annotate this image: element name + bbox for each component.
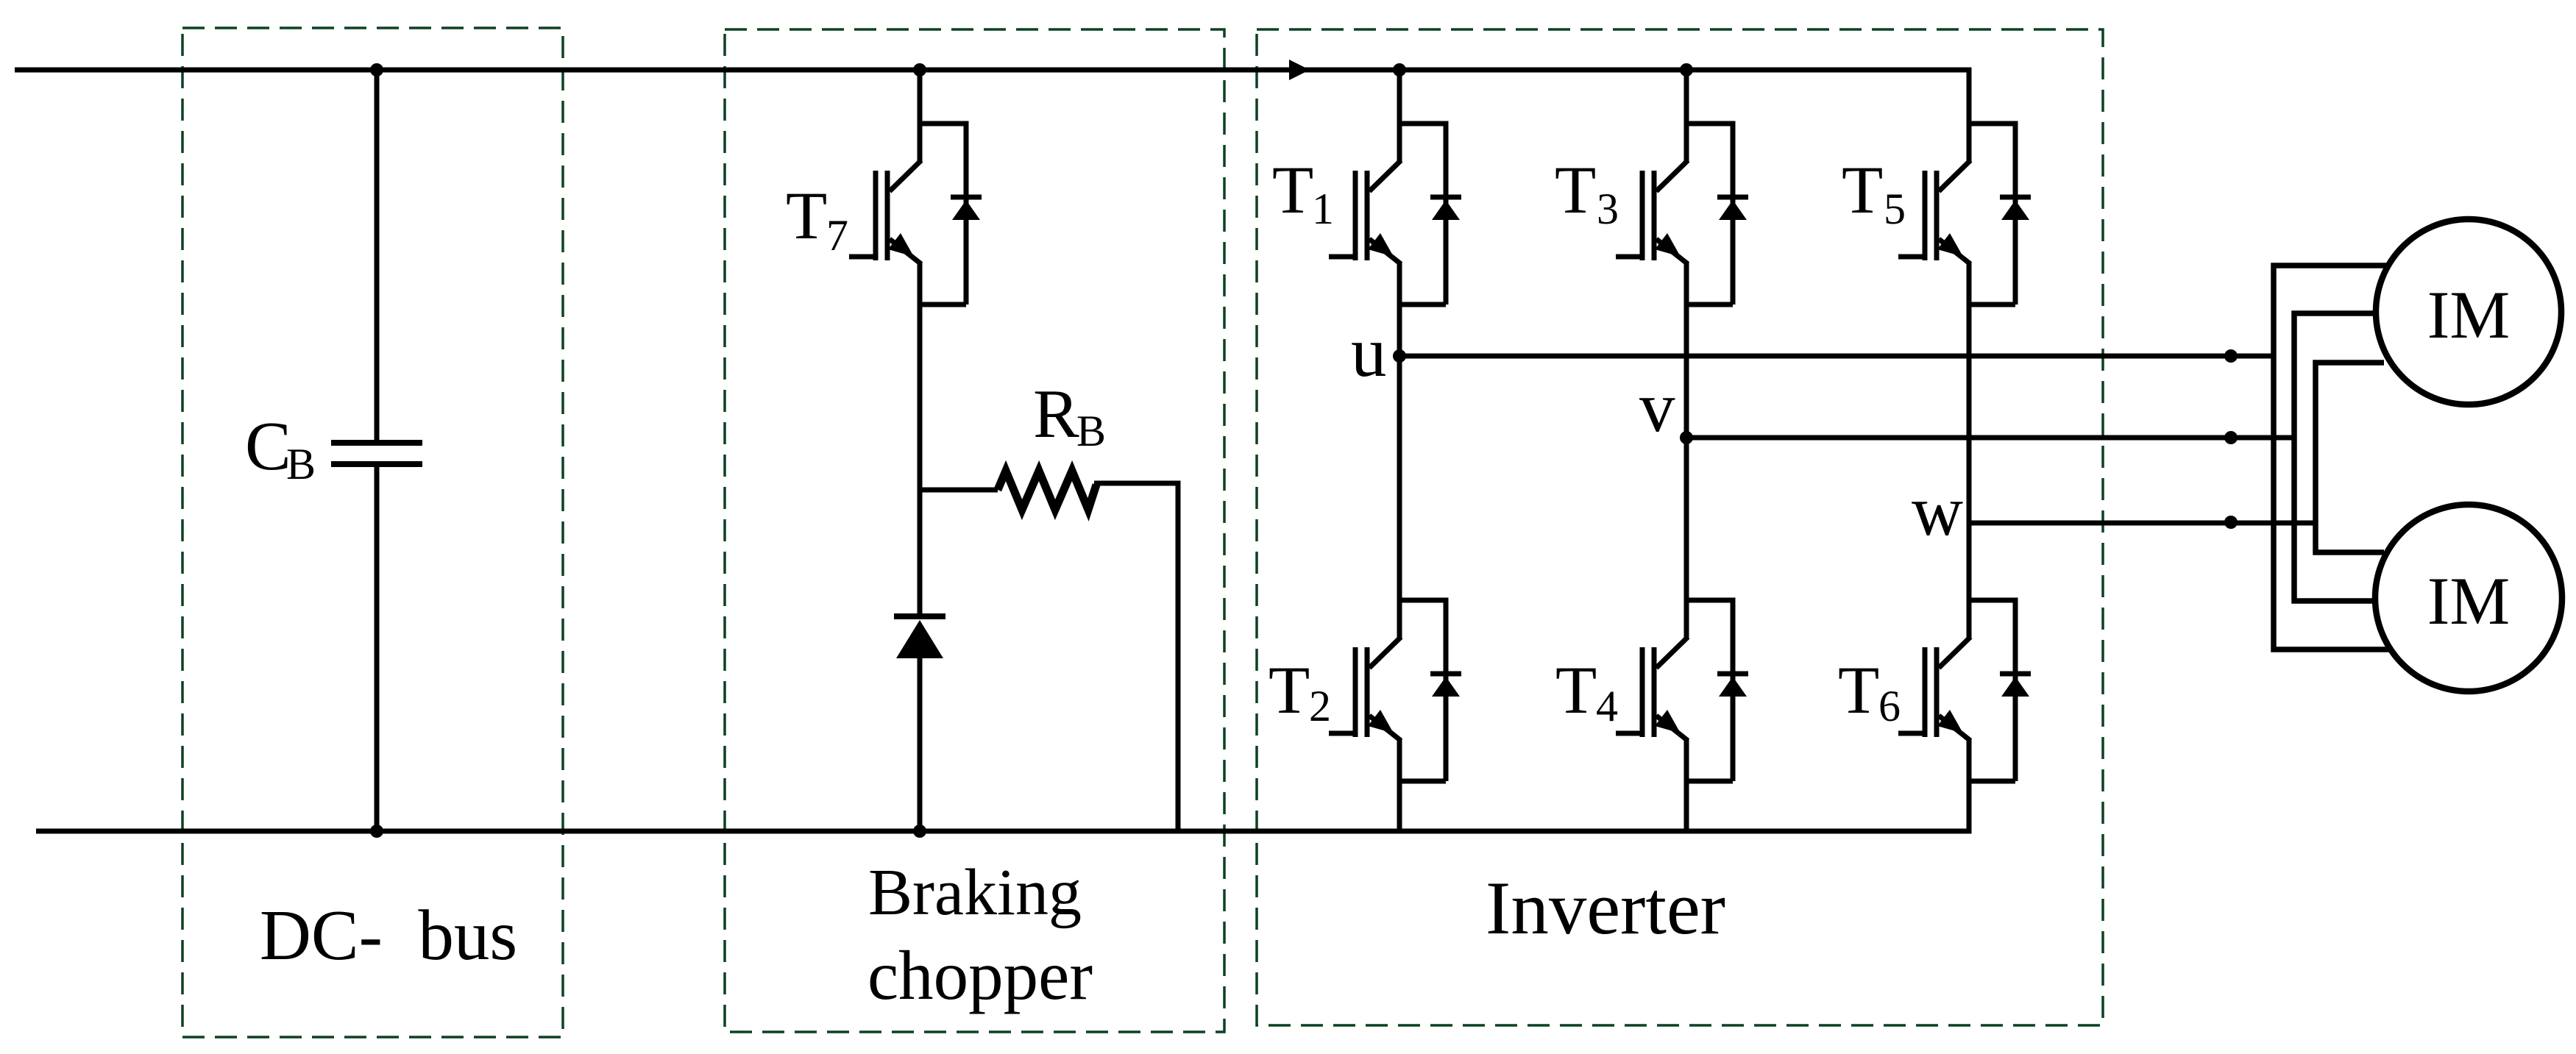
node v junction dot <box>1680 431 1693 444</box>
svg-text:T: T <box>1838 652 1879 727</box>
wire: negative DC bus (bottom rail), corner up into T6 leg <box>36 781 1969 831</box>
wire: T3 collector stub from positive bus <box>1684 70 1689 124</box>
svg-text:Braking: Braking <box>868 856 1082 929</box>
junction dot on phase v line <box>2224 431 2238 444</box>
svg-text:T: T <box>1842 152 1883 227</box>
label T6 <box>1838 652 1901 730</box>
transistor T1 (IGBT with antiparallel diode) <box>1329 121 1461 305</box>
svg-text:R: R <box>1033 376 1079 452</box>
svg-text:T: T <box>1269 652 1310 727</box>
resistor RB zigzag <box>998 471 1096 510</box>
capacitor CB <box>331 443 422 464</box>
label T2 <box>1269 652 1331 730</box>
wire: phase w distribution bracket (inner) to both motors <box>2316 363 2384 552</box>
wire: T4 emitter to negative bus <box>1684 781 1689 831</box>
junction dot: T7 leg on positive bus <box>913 63 926 76</box>
node u junction dot <box>1393 349 1406 363</box>
wire: phase v distribution bracket (middle) to both motors <box>2294 313 2378 601</box>
label T3 <box>1555 152 1619 233</box>
junction dot on phase w line <box>2224 516 2238 529</box>
svg-text:IM: IM <box>2427 563 2510 638</box>
induction motor 2 (bottom IM) <box>2375 505 2562 691</box>
junction dot: CB bottom on negative bus <box>370 825 383 838</box>
wire: phase u distribution bracket (outer) to both motors <box>2274 266 2390 649</box>
wire: T7 collector stub from positive bus <box>918 70 923 124</box>
svg-text:w: w <box>1912 471 1963 550</box>
wire: T3 emitter to node v <box>1684 305 1689 438</box>
transistor T2 (IGBT with antiparallel diode) <box>1329 598 1461 782</box>
junction dot: T3 leg on positive bus <box>1680 63 1693 76</box>
Inverter section dashed box <box>1257 29 2103 1025</box>
induction motor 1 (top IM) <box>2376 219 2561 405</box>
svg-text:2: 2 <box>1309 682 1331 730</box>
label T7 <box>786 178 848 260</box>
wire: T1 emitter to node u <box>1397 305 1402 356</box>
wire: T2 emitter to negative bus <box>1397 781 1402 831</box>
wire: capacitor CB top lead <box>375 70 380 443</box>
transistor T6 (IGBT with antiparallel diode) <box>1898 598 2031 782</box>
svg-text:T: T <box>1555 652 1597 727</box>
wire: capacitor CB bottom lead <box>375 464 380 831</box>
DC-bus section dashed box <box>182 28 563 1037</box>
svg-text:6: 6 <box>1878 682 1901 730</box>
wire: diode DB anode to negative bus <box>918 658 923 831</box>
transistor T5 (IGBT with antiparallel diode) <box>1898 121 2031 305</box>
wire: phase u line from node u to motor bracket <box>1399 354 2274 359</box>
wire: node u to T2 collector <box>1397 356 1402 600</box>
diode DB (braking chopper series diode) <box>894 616 945 658</box>
svg-text:IM: IM <box>2427 277 2510 352</box>
label T5 <box>1842 152 1906 233</box>
svg-text:T: T <box>1272 152 1313 227</box>
transistor T7 (IGBT with antiparallel diode) <box>849 121 982 305</box>
junction dot: T7 leg on negative bus <box>913 825 926 838</box>
svg-text:1: 1 <box>1312 185 1334 233</box>
svg-text:4: 4 <box>1596 682 1618 730</box>
svg-text:5: 5 <box>1884 185 1906 233</box>
wire: phase v line from node v to motor bracket <box>1686 435 2294 441</box>
svg-text:7: 7 <box>826 211 848 260</box>
wire: phase w line from node w to motor bracket <box>1969 521 2316 526</box>
junction dot: T1 leg on positive bus <box>1393 63 1406 76</box>
junction dot on phase u line <box>2224 349 2238 363</box>
wire: positive DC bus (top rail), corner down into T5 leg <box>15 70 1969 124</box>
label T1 <box>1272 152 1334 233</box>
svg-text:Inverter: Inverter <box>1486 866 1725 950</box>
transistor T4 (IGBT with antiparallel diode) <box>1616 598 1748 782</box>
wire: T5 emitter to node w <box>1967 305 1972 523</box>
svg-text:T: T <box>1555 152 1596 227</box>
label CB <box>245 408 316 488</box>
wire: node v to T4 collector <box>1684 438 1689 600</box>
wire: T1 collector stub from positive bus <box>1397 70 1402 124</box>
wire: node w to T6 collector <box>1967 523 1972 600</box>
svg-text:u: u <box>1351 313 1387 391</box>
svg-text:DC- bus: DC- bus <box>260 896 517 975</box>
svg-text:3: 3 <box>1597 185 1619 233</box>
svg-text:T: T <box>786 178 827 253</box>
junction dot: CB top on positive bus <box>370 63 383 76</box>
wire: T7 emitter down to diode DB <box>918 305 923 616</box>
wire: resistor RB right lead and drop to negative bus <box>1094 483 1178 831</box>
svg-text:B: B <box>1076 407 1106 455</box>
wire: resistor RB left lead <box>920 488 998 493</box>
Braking chopper section dashed box <box>725 29 1224 1032</box>
svg-text:chopper: chopper <box>867 936 1093 1014</box>
transistor T3 (IGBT with antiparallel diode) <box>1616 121 1748 305</box>
label T4 <box>1555 652 1618 730</box>
svg-text:C: C <box>245 408 291 485</box>
svg-text:B: B <box>286 440 316 488</box>
label RB <box>1033 376 1106 455</box>
arrowhead on positive DC bus <box>1289 60 1310 80</box>
svg-text:v: v <box>1639 368 1675 446</box>
